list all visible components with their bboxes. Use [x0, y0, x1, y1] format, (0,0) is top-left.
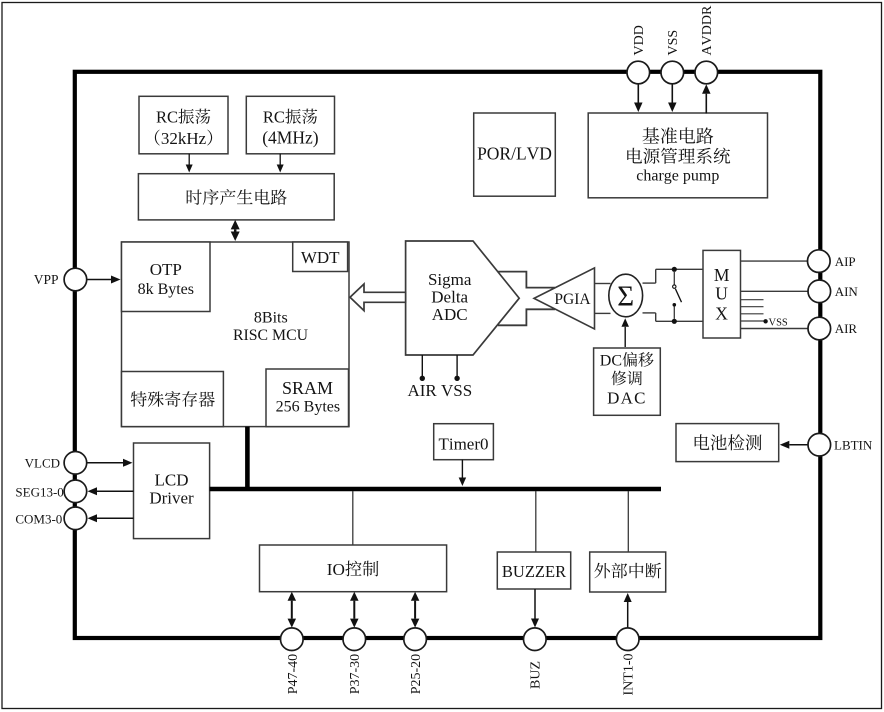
svg-text:Σ: Σ — [617, 281, 634, 313]
svg-text:COM3-0: COM3-0 — [15, 511, 62, 526]
svg-text:RC: RC — [156, 108, 178, 127]
svg-text:INT1-0: INT1-0 — [622, 654, 637, 696]
svg-text:POR/LVD: POR/LVD — [477, 144, 552, 164]
svg-text:LCD: LCD — [155, 471, 189, 490]
svg-text:AIR VSS: AIR VSS — [407, 381, 472, 400]
svg-text:SEG13-0: SEG13-0 — [15, 484, 63, 499]
svg-text:OTP: OTP — [150, 260, 182, 279]
svg-text:WDT: WDT — [301, 248, 340, 267]
svg-text:SRAM: SRAM — [282, 378, 333, 398]
svg-text:VPP: VPP — [34, 272, 59, 287]
svg-text:U: U — [715, 284, 728, 304]
svg-text:AVDDR: AVDDR — [700, 5, 715, 55]
svg-text:BUZZER: BUZZER — [502, 562, 566, 581]
svg-text:32kHz: 32kHz — [161, 129, 207, 148]
svg-text:BUZ: BUZ — [529, 661, 544, 689]
svg-text:AIR: AIR — [835, 321, 858, 336]
svg-text:(4MHz): (4MHz) — [262, 128, 319, 148]
svg-text:IO: IO — [327, 560, 345, 579]
svg-text:VLCD: VLCD — [25, 456, 60, 471]
svg-text:LBTIN: LBTIN — [834, 438, 873, 453]
svg-text:AIP: AIP — [835, 254, 856, 269]
svg-text:P37-30: P37-30 — [348, 654, 363, 694]
svg-text:DC: DC — [600, 353, 622, 370]
svg-text:VSS: VSS — [666, 30, 681, 56]
svg-text:VSS: VSS — [769, 317, 788, 328]
svg-text:ADC: ADC — [432, 305, 468, 324]
svg-text:P25-20: P25-20 — [409, 654, 424, 694]
svg-text:charge pump: charge pump — [636, 168, 719, 185]
svg-text:M: M — [714, 265, 730, 285]
svg-text:VDD: VDD — [632, 25, 647, 55]
svg-text:X: X — [715, 304, 728, 324]
svg-text:Timer0: Timer0 — [438, 435, 488, 454]
svg-text:RISC MCU: RISC MCU — [233, 327, 309, 344]
svg-text:Driver: Driver — [149, 489, 194, 508]
svg-text:RC: RC — [263, 108, 285, 127]
svg-text:P47-40: P47-40 — [286, 654, 301, 694]
svg-text:DAC: DAC — [607, 389, 647, 408]
svg-text:8Bits: 8Bits — [254, 310, 288, 327]
svg-text:AIN: AIN — [835, 284, 859, 299]
svg-text:Sigma: Sigma — [428, 270, 472, 289]
svg-text:Delta: Delta — [431, 288, 468, 307]
svg-text:8k Bytes: 8k Bytes — [138, 281, 194, 298]
svg-text:256 Bytes: 256 Bytes — [276, 399, 340, 416]
svg-text:PGIA: PGIA — [554, 291, 591, 308]
